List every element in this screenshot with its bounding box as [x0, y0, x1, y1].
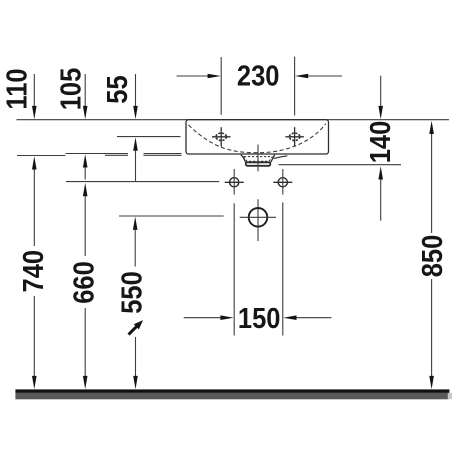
svg-text:150: 150 [238, 302, 281, 335]
svg-text:55: 55 [101, 75, 134, 103]
svg-text:660: 660 [67, 261, 100, 304]
svg-text:550: 550 [115, 271, 148, 314]
svg-text:140: 140 [363, 121, 396, 164]
svg-text:110: 110 [0, 68, 33, 109]
svg-text:850: 850 [416, 235, 449, 278]
svg-text:740: 740 [16, 250, 49, 293]
svg-text:230: 230 [237, 59, 280, 92]
svg-text:105: 105 [54, 68, 87, 111]
